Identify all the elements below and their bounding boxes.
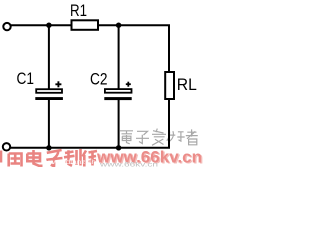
junction top C2: [116, 23, 121, 28]
svg-text:R1: R1: [70, 1, 87, 20]
wire C2 branch upper: [118, 25, 120, 89]
wire C1 branch lower: [48, 99, 50, 149]
junction bottom C2: [116, 145, 121, 150]
watermark grey text (decorative): [120, 129, 198, 146]
watermark red chars (decorative): [1, 149, 97, 167]
svg-text:www.dianzizh: www.dianzizh: [45, 159, 97, 166]
wire top rail with right drop and bottom rail: [10, 25, 169, 148]
resistor R1: [72, 20, 99, 30]
svg-text:C1: C1: [17, 69, 35, 88]
terminal input (top-left): [3, 23, 10, 30]
watermark pink url (decorative): [96, 148, 203, 167]
svg-text:C2: C2: [90, 69, 108, 88]
svg-text:RL: RL: [177, 75, 197, 94]
svg-text:www.66kv.cn: www.66kv.cn: [98, 162, 158, 167]
junction top C1: [46, 23, 51, 28]
terminal output (bottom-left): [3, 143, 10, 150]
capacitor C1: [35, 89, 63, 100]
polarity plus C2: [126, 82, 131, 87]
resistor RL: [165, 72, 174, 99]
wire C2 branch lower: [118, 99, 120, 149]
capacitor C2: [104, 89, 131, 100]
wire C1 branch upper: [48, 25, 50, 89]
junction bottom C1: [46, 145, 51, 150]
polarity plus C1: [55, 81, 61, 87]
